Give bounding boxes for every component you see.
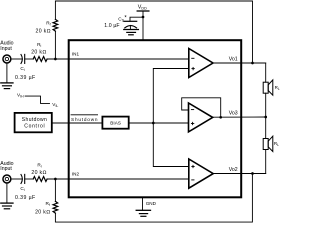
- node VDD bypass junction: [142, 16, 145, 19]
- audio input jack J2: [3, 175, 11, 183]
- shutdown control box: [15, 113, 52, 132]
- svg-text:20 kΩ: 20 kΩ: [35, 209, 50, 215]
- svg-text:Vo1: Vo1: [229, 56, 238, 62]
- svg-text:0.39 µF: 0.39 µF: [15, 195, 35, 201]
- svg-text:20 kΩ: 20 kΩ: [36, 28, 51, 34]
- svg-text:IN2: IN2: [72, 172, 80, 177]
- audio input jack J1: [3, 55, 11, 63]
- capacitor Ci2: [21, 175, 22, 184]
- svg-text:Shutdown: Shutdown: [71, 117, 98, 122]
- wire A1 output Vo1: [213, 62, 266, 64]
- A1 minus marker: [192, 57, 194, 59]
- resistor Ri1: [33, 57, 47, 62]
- speaker RL2: [263, 139, 268, 150]
- wire A2 output Vo2: [213, 173, 266, 175]
- wire speaker2 to Vo2: [265, 150, 267, 174]
- svg-text:Shutdown: Shutdown: [22, 117, 47, 123]
- svg-text:Control: Control: [24, 124, 44, 130]
- svg-text:GND: GND: [146, 201, 157, 206]
- wire A3 feedback loop: [182, 98, 221, 118]
- resistor Ri2: [33, 177, 47, 182]
- ground symbol GND pin: [136, 209, 150, 211]
- wire jack2 to Ci2: [11, 178, 22, 180]
- svg-text:20 kΩ: 20 kΩ: [31, 170, 46, 176]
- svg-text:20 kΩ: 20 kΩ: [31, 49, 46, 55]
- wire jack1 to Ci1: [11, 58, 22, 60]
- svg-text:Input: Input: [0, 46, 12, 52]
- capacitor CS polarized: [124, 20, 137, 22]
- BIAS box: [102, 117, 128, 129]
- A1 plus marker: [192, 68, 194, 70]
- ground below CS: [124, 29, 139, 31]
- wire speaker1 to Vo3 node: [265, 93, 267, 117]
- wire VDD to package top: [142, 11, 144, 40]
- node Vo3 junction: [264, 116, 267, 119]
- wire IN2 into op-amp A2 inverting input: [47, 178, 189, 180]
- wire top feedback rail: [55, 1, 252, 63]
- A3 plus marker: [191, 123, 193, 125]
- A3 minus marker: [191, 109, 193, 111]
- wire to CS: [130, 17, 143, 21]
- wire Vo3 node to speaker 2: [265, 117, 267, 139]
- wire Vo1 down to speaker 1: [265, 63, 267, 82]
- node bias rail junction: [152, 122, 155, 125]
- svg-text:IN1: IN1: [72, 52, 80, 57]
- svg-text:Vo2: Vo2: [229, 167, 238, 173]
- wire shutdown control to BIAS: [52, 122, 102, 124]
- IC package U1 outline: [69, 40, 242, 197]
- wire Rf2 bottom rail to Vo2: [55, 174, 252, 223]
- wire A1 non-inverting input to bias rail: [153, 69, 189, 167]
- wire A3 output Vo3: [213, 116, 266, 118]
- pin GND wire: [142, 197, 144, 210]
- op-amp A1 (top): [189, 49, 213, 78]
- A2 plus marker: [192, 166, 194, 168]
- wire BIAS to op-amp A3 non-inverting input: [129, 122, 188, 124]
- svg-text:1.0 µF: 1.0 µF: [104, 23, 119, 29]
- A2 minus marker: [192, 179, 194, 181]
- resistor Rf2: [53, 201, 58, 213]
- svg-text:Vo3: Vo3: [229, 111, 238, 117]
- op-amp A2 (bottom): [189, 159, 213, 188]
- wire Ci2 to Ri2: [25, 178, 34, 180]
- node IN2 junction dot: [54, 178, 57, 181]
- wire bottom feedback rail: [54, 179, 56, 201]
- resistor Rf1: [53, 19, 58, 31]
- svg-text:0.39 µF: 0.39 µF: [15, 75, 35, 81]
- svg-text:Input: Input: [0, 166, 12, 172]
- node Vo2 feedback junction: [251, 172, 254, 175]
- node A3 output junction: [219, 116, 222, 119]
- svg-text:BIAS: BIAS: [110, 121, 121, 126]
- wire IN1 into op-amp A1 inverting input: [47, 58, 189, 60]
- wire Rf1 bottom to IN1 node: [54, 31, 56, 59]
- ground below jack J1: [6, 63, 8, 83]
- ground below jack J2: [6, 183, 8, 203]
- op-amp A3 (middle, buffer): [189, 103, 213, 132]
- wire Ci1 to Ri1: [25, 58, 34, 60]
- node Vo1 feedback junction: [251, 62, 254, 65]
- node IN1 junction dot: [54, 58, 57, 61]
- speaker RL1: [263, 82, 268, 93]
- capacitor Ci1: [21, 55, 22, 64]
